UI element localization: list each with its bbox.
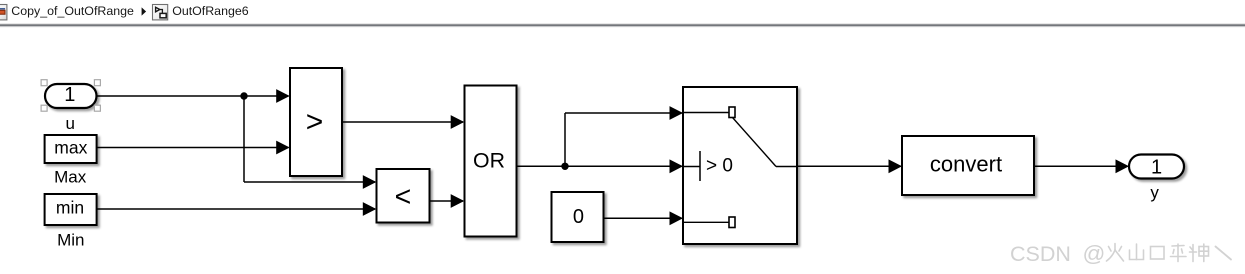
wire OR to switch (middle input) xyxy=(517,159,684,173)
wire < to OR (input 2) xyxy=(430,194,465,208)
switch selector diagonal xyxy=(733,118,777,167)
selection handle bottom-left xyxy=(41,105,47,111)
svg-text:y: y xyxy=(1150,183,1159,202)
outport y block (oval "1") xyxy=(1129,155,1184,179)
svg-text:Max: Max xyxy=(54,168,87,187)
relational operator block < xyxy=(377,169,430,223)
svg-text:CSDN: CSDN xyxy=(1010,242,1071,266)
inport u block (oval "1") xyxy=(45,84,97,108)
junction node on u wire xyxy=(240,92,247,99)
selection handle bottom-right xyxy=(94,105,100,111)
convert text xyxy=(930,152,1002,177)
watermark glyph shen xyxy=(1190,244,1209,262)
watermark CSDN text xyxy=(1010,241,1105,266)
switch threshold stub xyxy=(683,166,700,168)
svg-text:max: max xyxy=(54,137,87,157)
svg-text:Copy_of_OutOfRange: Copy_of_OutOfRange xyxy=(11,4,134,18)
svg-text:OutOfRange6: OutOfRange6 xyxy=(172,4,249,18)
wire 0 to switch (bottom input) xyxy=(604,211,684,225)
constant 0 text xyxy=(573,206,584,228)
svg-text:convert: convert xyxy=(930,152,1002,177)
min block text xyxy=(56,198,84,218)
wire max to relational > (input 2) xyxy=(97,141,290,155)
breadcrumb text OutOfRange6 xyxy=(172,4,249,18)
svg-text:0: 0 xyxy=(573,206,584,228)
watermark glyph huo xyxy=(1107,244,1124,262)
svg-text:1: 1 xyxy=(64,84,75,106)
switch bottom port marker xyxy=(729,217,735,228)
breadcrumb subsystem icon xyxy=(153,5,168,20)
label u xyxy=(65,114,74,133)
svg-text:> 0: > 0 xyxy=(706,155,733,176)
constant block min xyxy=(45,194,97,225)
wire junction to relational < (input 1) xyxy=(244,175,376,189)
inport u digit xyxy=(64,84,75,106)
wire u to relational > (input 1) xyxy=(97,89,290,103)
constant block 0 xyxy=(552,192,604,242)
label Max xyxy=(54,168,87,187)
selection handle top-right xyxy=(94,80,100,86)
svg-text:min: min xyxy=(56,198,84,218)
relational operator block > xyxy=(290,68,342,176)
wire junction up xyxy=(564,113,566,166)
constant block max xyxy=(45,135,97,163)
label y xyxy=(1150,183,1159,202)
switch top port marker xyxy=(729,107,735,118)
svg-text:1: 1 xyxy=(1151,156,1162,178)
wire convert to outport y xyxy=(1034,159,1129,173)
wire junction down xyxy=(243,96,245,182)
OR text xyxy=(473,149,505,173)
watermark glyph kou xyxy=(1151,247,1165,260)
svg-text:OR: OR xyxy=(473,149,505,173)
max block text xyxy=(54,137,87,157)
wire switch to convert xyxy=(797,159,902,173)
svg-text:@: @ xyxy=(1083,241,1106,266)
breadcrumb separator arrow xyxy=(142,7,147,15)
switch internal top stub wire xyxy=(683,112,729,114)
outport y digit xyxy=(1151,156,1162,178)
watermark glyph che xyxy=(1171,244,1187,262)
wire > to OR (input 1) xyxy=(342,115,464,129)
relational < glyph xyxy=(395,181,412,213)
data type conversion block convert xyxy=(902,136,1034,195)
watermark glyph tenten xyxy=(1216,247,1232,260)
switch block xyxy=(683,87,797,244)
logical operator block OR xyxy=(465,86,517,237)
switch internal output stub xyxy=(776,166,797,168)
svg-text:Min: Min xyxy=(57,230,84,249)
relational > glyph xyxy=(306,106,324,139)
wire min to relational < (input 2) xyxy=(97,202,377,216)
svg-text:u: u xyxy=(65,114,74,133)
breadcrumb text Copy_of_OutOfRange xyxy=(11,4,134,18)
switch internal bottom stub wire xyxy=(683,221,729,223)
label Min xyxy=(57,230,84,249)
breadcrumb model icon (cut off at left edge) xyxy=(0,5,7,20)
watermark glyph shan xyxy=(1130,244,1144,260)
toolbar separator line xyxy=(0,23,1245,27)
svg-text:<: < xyxy=(395,181,412,213)
selection handle top-left xyxy=(41,80,47,86)
switch threshold text > 0 xyxy=(706,155,733,176)
switch threshold tick xyxy=(699,151,701,181)
junction node on OR output xyxy=(561,163,568,170)
wire junction to switch (top input) xyxy=(565,106,683,120)
svg-text:>: > xyxy=(306,106,324,139)
